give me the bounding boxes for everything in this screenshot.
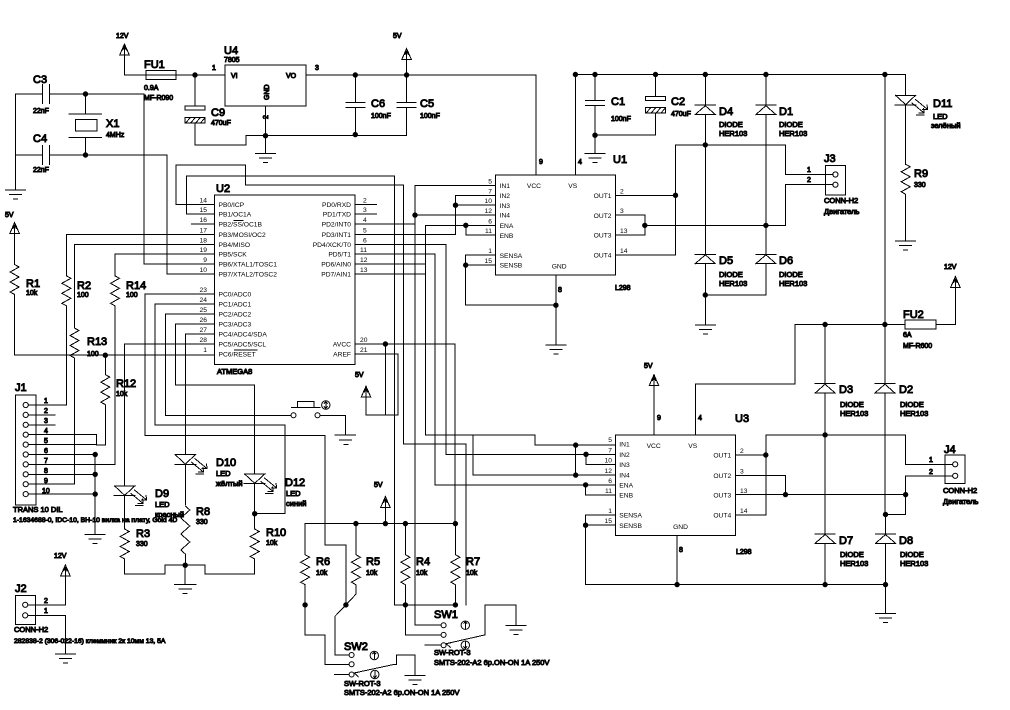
ground J2 <box>55 654 75 663</box>
node D7 gnd <box>823 582 827 586</box>
connector J3 <box>825 166 845 196</box>
wire U2 pin14 bus A to SW1 area <box>176 165 466 605</box>
diode D5 HER103 <box>695 145 715 295</box>
svg-text:DIODE: DIODE <box>719 270 743 279</box>
J1 pin number labels <box>42 398 50 495</box>
svg-text:C5: C5 <box>420 98 434 110</box>
J1 pin4 circle <box>23 432 28 437</box>
J1 pin7 wire to R14 <box>28 463 115 465</box>
wire XTAL2 to U2 pin10 <box>86 155 215 274</box>
svg-text:VCC: VCC <box>647 443 661 450</box>
node junction FU1/C9 <box>193 73 197 77</box>
svg-text:26: 26 <box>200 317 208 324</box>
svg-text:5V: 5V <box>355 372 364 379</box>
svg-text:IN4: IN4 <box>619 473 630 480</box>
svg-text:15: 15 <box>200 207 208 214</box>
svg-text:9: 9 <box>657 415 661 422</box>
svg-text:SMTS-202-A2 6p.ON-ON 1A 250V: SMTS-202-A2 6p.ON-ON 1A 250V <box>344 688 459 697</box>
svg-text:PB6/XTAL1/TOSC1: PB6/XTAL1/TOSC1 <box>219 262 278 269</box>
svg-text:4MHz: 4MHz <box>106 132 125 139</box>
svg-text:10k: 10k <box>266 540 278 547</box>
node D1 D6 mid <box>764 223 768 227</box>
capacitor C3 <box>16 85 86 104</box>
node U3 gnd junction <box>675 582 679 586</box>
svg-text:28: 28 <box>200 337 208 344</box>
J1 pin9 wire to R13 <box>28 483 74 485</box>
capacitor C1 <box>586 75 605 136</box>
U3 right pin numbers <box>740 448 748 515</box>
svg-text:7: 7 <box>488 188 492 195</box>
node D3 D7 mid <box>823 433 827 437</box>
svg-text:6: 6 <box>488 218 492 225</box>
wire U1 SENS tie to gnd <box>466 255 556 305</box>
J1 pin10 wire <box>28 493 95 495</box>
svg-text:1: 1 <box>44 398 48 405</box>
svg-text:12: 12 <box>485 208 493 215</box>
power 5V arrow top <box>402 49 412 76</box>
svg-text:OUT2: OUT2 <box>713 473 731 480</box>
svg-text:100nF: 100nF <box>371 113 391 120</box>
resistor R6 <box>301 524 310 605</box>
diode D1 HER103 <box>756 75 776 226</box>
svg-text:VI: VI <box>231 73 238 80</box>
capacitor C2 polarized <box>595 75 666 136</box>
svg-text:ENA: ENA <box>500 223 514 230</box>
node U1 OUT2/OUT3 tie <box>643 223 647 227</box>
node X1 bottom <box>83 153 87 157</box>
svg-text:0.9A: 0.9A <box>144 85 159 92</box>
svg-text:ENA: ENA <box>619 483 633 490</box>
node R4 bottom <box>403 603 407 607</box>
svg-text:U1: U1 <box>613 154 627 166</box>
SW1 arrow up circle <box>461 621 469 629</box>
svg-text:4: 4 <box>698 415 702 422</box>
resistor R9 <box>901 164 910 241</box>
node U1 ENA tie <box>464 223 468 227</box>
U1 left pin numbers <box>485 178 493 265</box>
wire U2 pin2 stub <box>355 203 377 205</box>
svg-text:1-1634688-0, IDC-10, BH-10 вил: 1-1634688-0, IDC-10, BH-10 вилка на плат… <box>13 517 177 524</box>
svg-text:CONN-H2: CONN-H2 <box>824 196 858 205</box>
svg-text:OUT2: OUT2 <box>594 213 612 220</box>
svg-text:10: 10 <box>200 267 208 274</box>
svg-text:R14: R14 <box>126 280 146 292</box>
diode D6 HER103 <box>705 225 776 295</box>
wire FU1 to U4 VI <box>176 74 225 76</box>
wire reset line <box>15 354 215 356</box>
connector J4 <box>945 455 965 484</box>
svg-text:U4: U4 <box>224 45 238 57</box>
svg-text:2: 2 <box>363 197 367 204</box>
svg-text:14: 14 <box>200 197 208 204</box>
svg-text:R6: R6 <box>316 556 330 568</box>
svg-text:6A: 6A <box>903 332 912 339</box>
node D4 top <box>703 72 707 76</box>
svg-text:12: 12 <box>605 468 613 475</box>
svg-text:100nF: 100nF <box>611 116 631 123</box>
wire U2 pin24 to D12 node <box>155 304 285 514</box>
wire U1 OUT4 riser netA to J3 pin1 <box>616 145 833 255</box>
wire U2 pin11 to U3 IN4 <box>355 254 615 485</box>
wire R5 node to SW2 pole1 <box>335 605 349 655</box>
svg-text:15: 15 <box>485 258 493 265</box>
svg-text:D8: D8 <box>899 535 913 547</box>
J1 pin5 circle <box>23 442 28 447</box>
resistor R13 <box>70 328 79 484</box>
svg-text:R13: R13 <box>87 336 107 348</box>
svg-text:D1: D1 <box>779 106 793 118</box>
svg-text:VO: VO <box>286 73 297 80</box>
U2 right pin numbers <box>360 197 368 354</box>
node rail R4 <box>403 521 407 525</box>
wire U2 pin25 to button <box>165 314 291 415</box>
svg-text:PC2/ADC2: PC2/ADC2 <box>219 312 252 319</box>
node J1 pin6 gnd <box>93 452 97 456</box>
node C1 top <box>593 72 597 76</box>
svg-text:R1: R1 <box>26 278 40 290</box>
svg-text:470uF: 470uF <box>671 111 691 118</box>
overline SS pin16 <box>234 220 243 222</box>
wire U2 pin23 to SW2 <box>145 294 346 605</box>
diode D2 HER103 <box>875 325 895 515</box>
resistor R8 <box>181 506 190 565</box>
svg-text:CONN-H2: CONN-H2 <box>14 625 48 634</box>
svg-text:C4: C4 <box>33 133 47 145</box>
wire U3 SENSB stub <box>586 524 616 526</box>
resistor R1 <box>10 265 19 356</box>
node FU2 line D3 <box>823 322 827 326</box>
capacitor C9 polarized <box>185 106 266 145</box>
wire U1 GND pin8 <box>555 275 557 345</box>
switch SW1 <box>425 623 485 648</box>
MCU U2 ATMEGA8 box <box>215 195 356 365</box>
node AVCC branch <box>383 342 387 346</box>
svg-text:100nF: 100nF <box>420 113 440 120</box>
svg-text:SMTS-202-A2 6p.ON-ON 1A 250V: SMTS-202-A2 6p.ON-ON 1A 250V <box>434 658 549 667</box>
svg-text:C3: C3 <box>33 74 47 86</box>
wire U1 ENB tie <box>466 225 496 235</box>
svg-text:VCC: VCC <box>527 183 541 190</box>
svg-text:18: 18 <box>200 237 208 244</box>
ground under U4 <box>256 136 276 163</box>
wire bus x425 to U3 IN1 <box>426 225 616 445</box>
J4 pin2 circle <box>953 473 958 478</box>
wire U1 SENSB stub <box>466 264 496 266</box>
svg-text:D5: D5 <box>719 255 733 267</box>
node R12 top on reset line <box>103 353 107 357</box>
node C5 top / 5V arrow <box>404 73 408 77</box>
resistor R7 <box>451 524 460 605</box>
svg-text:HER103: HER103 <box>840 559 868 568</box>
node D12 R10 junction <box>253 512 257 516</box>
capacitor C4 <box>16 146 86 165</box>
svg-text:OUT1: OUT1 <box>594 193 612 200</box>
svg-text:FU2: FU2 <box>903 309 924 321</box>
diode D7 HER103 <box>815 435 835 585</box>
wire U2 pin12 to U3 ENA/ENB <box>355 263 426 265</box>
wire U3 OUT4 riser netA2 to J4 pin1 <box>735 435 952 515</box>
svg-text:HER103: HER103 <box>900 409 928 418</box>
J1 pin3 circle <box>23 422 28 427</box>
svg-text:5V: 5V <box>374 482 383 489</box>
U1 right pin numbers <box>620 188 628 255</box>
svg-text:R2: R2 <box>77 280 91 292</box>
J1 pin4 wire <box>28 435 96 445</box>
svg-text:синий: синий <box>286 499 306 508</box>
svg-text:5: 5 <box>44 438 48 445</box>
crystal X1 <box>69 94 102 155</box>
wire junction to C9 <box>194 75 196 106</box>
J2 pin2 circle <box>23 602 28 607</box>
LED D12 blue <box>244 474 276 529</box>
ground D5 D6 <box>695 295 715 334</box>
wire U1 IN1 stub and long drop to SW1 <box>415 185 496 625</box>
diode D4 HER103 <box>695 75 715 145</box>
wire R2 top to U2 pin17 <box>66 234 214 275</box>
wire rail drop to FU2 line <box>884 75 886 325</box>
svg-text:IN2: IN2 <box>619 452 630 459</box>
svg-text:SW1: SW1 <box>434 609 458 621</box>
svg-text:VS: VS <box>568 183 577 190</box>
svg-text:IN1: IN1 <box>500 183 511 190</box>
power 5V arrow AVCC <box>361 386 371 415</box>
LED D11 green <box>895 95 928 164</box>
ground R9 <box>896 241 916 250</box>
svg-text:C2: C2 <box>671 96 685 108</box>
svg-text:AREF: AREF <box>333 351 351 358</box>
svg-text:27: 27 <box>200 327 208 334</box>
svg-text:IN3: IN3 <box>619 462 630 469</box>
svg-text:AVCC: AVCC <box>333 342 351 349</box>
svg-text:5: 5 <box>608 437 612 444</box>
wire U3 OUT1 <box>735 454 765 456</box>
svg-text:25: 25 <box>200 307 208 314</box>
svg-text:GND: GND <box>264 84 271 100</box>
svg-text:2: 2 <box>807 177 811 184</box>
svg-text:9: 9 <box>203 257 207 264</box>
svg-text:3: 3 <box>363 207 367 214</box>
wire netB2 to D8 mid <box>886 495 906 515</box>
wire U2 pin4 to U1 IN1/IN4 <box>355 215 415 224</box>
svg-text:10k: 10k <box>416 570 428 577</box>
wire U3 OUT3 netB2 <box>735 494 905 496</box>
svg-text:LED: LED <box>155 500 170 509</box>
J1 pin10 circle <box>23 492 28 497</box>
svg-text:ATMEGA8: ATMEGA8 <box>217 367 252 376</box>
J2 pin2 wire to 12V <box>28 604 66 606</box>
svg-text:R7: R7 <box>466 556 480 568</box>
svg-text:D2: D2 <box>899 384 913 396</box>
svg-text:HER103: HER103 <box>719 129 747 138</box>
svg-text:HER103: HER103 <box>840 409 868 418</box>
node U1 GND junction <box>554 303 558 307</box>
node U3 OUT2/OUT3 tie <box>783 492 787 496</box>
node U3 IN1 tie <box>574 443 578 447</box>
svg-text:14: 14 <box>620 248 628 255</box>
svg-text:DIODE: DIODE <box>900 550 924 559</box>
svg-text:10k: 10k <box>116 391 128 398</box>
svg-text:4: 4 <box>44 428 48 435</box>
node rail to FU2 drop <box>883 72 887 76</box>
ground SW2 <box>405 675 425 684</box>
wire U2 pin3 stub <box>355 213 377 215</box>
svg-text:10k: 10k <box>466 570 478 577</box>
resistor R5 <box>346 524 361 605</box>
svg-text:1: 1 <box>807 167 811 174</box>
node U1 OUT1/OUT4 tie <box>673 193 677 197</box>
wire ground bus under U4 <box>266 106 407 136</box>
svg-text:1: 1 <box>203 347 207 354</box>
svg-text:OUT3: OUT3 <box>713 493 731 500</box>
wire U1 IN3 stub <box>456 204 496 206</box>
node R7 bottom <box>453 603 457 607</box>
svg-text:J1: J1 <box>15 382 27 394</box>
power 5V arrow left <box>10 223 20 265</box>
U3 pin names <box>619 442 697 531</box>
J1 pin1 wire to R2 <box>28 401 66 406</box>
svg-text:PB5/SCK: PB5/SCK <box>219 252 248 259</box>
svg-text:10k: 10k <box>366 570 378 577</box>
node U3 IN2 tie <box>584 452 588 456</box>
svg-text:D9: D9 <box>155 488 169 500</box>
svg-text:1: 1 <box>488 248 492 255</box>
power 12V arrow J2 <box>61 565 71 605</box>
wire J4 pin2 <box>906 476 953 495</box>
svg-text:зелёный: зелёный <box>931 121 961 130</box>
wire U3 OUT2 jog <box>735 475 785 494</box>
svg-text:10: 10 <box>42 488 50 495</box>
wire U3 SENSA tie <box>586 515 616 585</box>
svg-text:HER103: HER103 <box>779 279 807 288</box>
wire 5V pullup rail <box>305 523 455 525</box>
wire R4 node to SW1 pole2 <box>405 605 441 635</box>
node C6 top <box>353 73 357 77</box>
svg-text:22nF: 22nF <box>33 108 49 115</box>
svg-text:X1: X1 <box>106 118 119 130</box>
svg-text:C6: C6 <box>371 98 385 110</box>
svg-text:24: 24 <box>200 297 208 304</box>
svg-text:PB1/OC1A: PB1/OC1A <box>219 212 252 219</box>
J1 pin8 wire <box>28 473 95 475</box>
svg-text:L298: L298 <box>736 549 752 556</box>
svg-text:LED: LED <box>286 489 301 498</box>
svg-text:20: 20 <box>360 337 368 344</box>
svg-text:4: 4 <box>578 159 582 166</box>
wire button right to ground <box>320 415 345 435</box>
J1 pin2 stub <box>28 414 55 416</box>
wire U1 OUT1 <box>616 194 676 196</box>
U2 left pin numbers <box>200 197 208 354</box>
svg-text:17: 17 <box>200 227 208 234</box>
wire U2 pin20 AVCC to 5V <box>355 344 455 524</box>
svg-text:DIODE: DIODE <box>840 400 864 409</box>
svg-text:8: 8 <box>558 287 562 294</box>
capacitor C6 <box>346 75 365 134</box>
wire U3 ENB tie <box>586 485 616 495</box>
svg-text:13: 13 <box>620 228 628 235</box>
svg-text:SW2: SW2 <box>344 641 368 653</box>
svg-text:1: 1 <box>212 65 216 72</box>
node D2 D8 mid <box>883 512 887 516</box>
fuse FU1 <box>146 71 176 80</box>
svg-text:11: 11 <box>485 228 492 235</box>
svg-text:U2: U2 <box>216 183 230 195</box>
svg-text:100: 100 <box>77 292 89 299</box>
wire 12V top rail <box>575 75 905 96</box>
svg-text:PD4/XCK/T0: PD4/XCK/T0 <box>313 242 352 249</box>
svg-text:2: 2 <box>740 448 744 455</box>
wire R6 to SW2 pole2 <box>305 605 349 664</box>
connector J1 <box>15 395 36 505</box>
resistor R4 <box>401 524 410 605</box>
node X1 top <box>83 92 87 96</box>
svg-text:330: 330 <box>914 182 926 189</box>
wire netB to J3 pin2 <box>645 185 833 226</box>
node R6 bottom <box>303 603 307 607</box>
svg-text:PC1/ADC1: PC1/ADC1 <box>219 302 252 309</box>
svg-text:3: 3 <box>620 208 624 215</box>
fuse FU2 <box>795 320 956 329</box>
svg-text:SENSA: SENSA <box>619 513 642 520</box>
wire SW1 bottom rail <box>395 604 456 606</box>
J1 pin3 stub <box>28 424 55 426</box>
svg-text:9: 9 <box>539 159 543 166</box>
svg-text:PC4/ADC4/SDA: PC4/ADC4/SDA <box>219 332 268 339</box>
svg-text:3: 3 <box>740 468 744 475</box>
svg-text:12V: 12V <box>54 553 67 560</box>
wire U3 IN1/IN4 tie vertical <box>575 445 577 475</box>
svg-text:6: 6 <box>363 237 367 244</box>
node R5 bottom <box>344 603 348 607</box>
wire U3 IN4 row <box>473 435 615 475</box>
svg-text:330: 330 <box>196 519 208 526</box>
wire U3 ground bus <box>586 584 886 586</box>
wire U1 IN4 stub <box>415 214 496 216</box>
power 12V arrow FU2 <box>951 277 961 325</box>
wire U3 IN3 tie <box>586 454 615 464</box>
svg-text:SENSB: SENSB <box>500 263 523 270</box>
svg-text:PD0/RXD: PD0/RXD <box>322 202 351 209</box>
wire R14 top to U2 pin19 <box>115 254 215 276</box>
J1 pin7 circle <box>23 462 28 467</box>
wire U2 pin16 stub <box>192 223 215 225</box>
svg-text:10: 10 <box>605 458 613 465</box>
node D4 D5 mid <box>703 143 707 147</box>
svg-text:Двигатель: Двигатель <box>824 207 859 216</box>
svg-text:R4: R4 <box>416 556 430 568</box>
J1 pin6 circle <box>23 452 28 457</box>
ground C1 C2 <box>585 135 605 162</box>
wire U2 pin26 to D12 <box>176 324 255 474</box>
node D5 gnd <box>703 293 707 297</box>
svg-text:9: 9 <box>44 478 48 485</box>
svg-text:DIODE: DIODE <box>840 550 864 559</box>
svg-text:3: 3 <box>315 65 319 72</box>
svg-text:ENB: ENB <box>619 493 633 500</box>
svg-text:PB4/MISO: PB4/MISO <box>219 242 251 249</box>
LED D10 yellow <box>175 455 207 505</box>
svg-text:GND: GND <box>552 264 567 271</box>
svg-text:FU1: FU1 <box>144 59 165 71</box>
svg-text:R8: R8 <box>196 506 210 518</box>
node U3 SENSB tie <box>583 523 587 527</box>
svg-text:1: 1 <box>608 508 612 515</box>
svg-text:13: 13 <box>360 267 368 274</box>
resistor R3 <box>120 529 185 574</box>
connector J2 <box>15 596 35 625</box>
svg-text:470uF: 470uF <box>211 120 231 127</box>
svg-text:5V: 5V <box>644 363 653 370</box>
